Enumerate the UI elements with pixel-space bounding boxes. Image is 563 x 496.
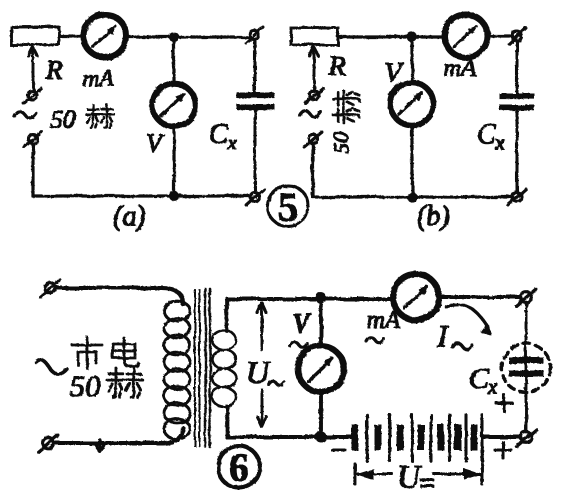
svg-text:mA: mA bbox=[367, 307, 401, 334]
meter V (b) bbox=[391, 83, 434, 126]
node bottom V (a) bbox=[170, 192, 179, 201]
terminal top-left (6) bbox=[40, 280, 60, 297]
terminal bottom-right (6) bbox=[516, 429, 536, 446]
meter mA (a) bbox=[84, 15, 127, 58]
figure number 6 bbox=[218, 445, 260, 490]
wire node to V meter (a) bbox=[173, 37, 175, 84]
terminal top-right (6) bbox=[516, 289, 536, 306]
wire bottom-left (6) bbox=[54, 428, 183, 443]
svg-text:x: x bbox=[494, 130, 505, 154]
wire terminal to cap (b) bbox=[516, 41, 518, 94]
plus sign lower (6) bbox=[495, 442, 511, 458]
transformer primary coil bbox=[164, 301, 190, 439]
wire node to V meter (b) bbox=[411, 37, 413, 82]
capacitor Cx (a) bbox=[237, 93, 274, 109]
dashed circle around Cx (6) bbox=[502, 344, 551, 393]
polarity arrow on bottom wire (6) bbox=[96, 440, 104, 452]
tilde under mA (6) bbox=[366, 337, 384, 343]
svg-text:R: R bbox=[328, 51, 346, 81]
svg-text:(b): (b) bbox=[417, 201, 450, 232]
Cx label (b) bbox=[477, 119, 505, 154]
wire mA right (6) bbox=[438, 295, 520, 298]
svg-text:(a): (a) bbox=[113, 201, 146, 232]
svg-text:x: x bbox=[487, 374, 498, 399]
node top (b) bbox=[407, 32, 416, 41]
svg-text:C: C bbox=[209, 119, 228, 150]
wire V meter to bottom (a) bbox=[173, 126, 175, 196]
wire mA to node (a) bbox=[127, 36, 250, 38]
wire left down (a) bbox=[32, 144, 34, 196]
terminal top-right (b) bbox=[509, 28, 526, 44]
tilde under V (6) bbox=[290, 342, 308, 348]
AC tilde (6) bbox=[36, 360, 67, 374]
svg-text:50: 50 bbox=[329, 132, 353, 154]
electrolytic capacitor Cx (6) bbox=[509, 358, 543, 377]
terminal bottom-right (b) bbox=[508, 189, 526, 205]
meter V (a) bbox=[153, 84, 196, 127]
wire V meter to bottom (6) bbox=[320, 391, 323, 437]
terminal upper-left (b) bbox=[305, 88, 323, 103]
svg-text:U: U bbox=[246, 354, 271, 390]
wire secondary top (6) bbox=[227, 297, 394, 300]
node bottom (b) bbox=[407, 192, 416, 201]
terminal lower-left (b) bbox=[304, 132, 322, 147]
svg-text:C: C bbox=[477, 119, 496, 150]
wire bottom (a) bbox=[33, 195, 250, 197]
Cx label (6) bbox=[469, 362, 498, 399]
plus sign upper (6) bbox=[496, 395, 512, 411]
svg-text:C: C bbox=[469, 362, 490, 395]
tilde AC symbol (a) bbox=[14, 111, 36, 118]
terminal bottom-right (a) bbox=[246, 189, 264, 205]
meter mA (6) bbox=[393, 274, 439, 320]
meter V (6) bbox=[298, 346, 344, 392]
wire to electrolytic cap (6) bbox=[525, 303, 527, 431]
wire R to mA (a) bbox=[59, 35, 84, 37]
wire cap to bottom terminal (b) bbox=[516, 111, 518, 193]
tilde after I (6) bbox=[452, 343, 472, 350]
wire mA to terminal (b) bbox=[488, 35, 513, 37]
wire battery right to terminal (6) bbox=[484, 436, 520, 439]
svg-text:50: 50 bbox=[70, 370, 100, 403]
svg-text:6: 6 bbox=[229, 445, 249, 490]
wire cap to bottom terminal (a) bbox=[254, 110, 256, 192]
terminal top-right (a) bbox=[246, 27, 263, 43]
wire left down (b) bbox=[312, 144, 314, 197]
node bottom (6) bbox=[316, 432, 326, 442]
wire V meter to bottom (b) bbox=[411, 126, 413, 197]
tilde AC symbol (b) bbox=[299, 110, 321, 117]
meter mA (b) bbox=[445, 15, 488, 58]
50 Hz label vertical (b) bbox=[329, 91, 359, 153]
svg-text:R: R bbox=[45, 55, 63, 85]
terminal lower-left (a) bbox=[24, 132, 42, 147]
svg-text:V: V bbox=[146, 129, 165, 158]
wire secondary bottom (6) bbox=[227, 435, 338, 438]
terminal upper-left (a) bbox=[23, 88, 41, 103]
transformer core bbox=[195, 289, 210, 447]
node top V (a) bbox=[170, 33, 179, 42]
node top V (6) bbox=[316, 293, 326, 303]
wire top-left (6) bbox=[56, 288, 183, 304]
capacitor Cx (b) bbox=[500, 94, 534, 110]
svg-text:x: x bbox=[226, 130, 237, 154]
svg-text:I: I bbox=[436, 318, 449, 354]
svg-text:mA: mA bbox=[82, 66, 114, 92]
U= label bbox=[397, 458, 433, 494]
arrow into R (b) bbox=[310, 47, 319, 91]
U2 label bbox=[246, 354, 284, 390]
wire bottom (b) bbox=[313, 196, 513, 198]
U2 voltage arrow bbox=[258, 303, 267, 427]
transformer secondary coil bbox=[212, 300, 236, 437]
resistor R (a) bbox=[11, 27, 59, 45]
wire R to node (b) bbox=[338, 36, 442, 38]
svg-text:U: U bbox=[397, 458, 422, 494]
minus dash (6) bbox=[332, 449, 345, 451]
terminal bottom-left (6) bbox=[38, 435, 58, 452]
wire node to battery (6) bbox=[321, 436, 352, 439]
resistor R (b) bbox=[291, 28, 338, 45]
battery U= cells (6) bbox=[352, 415, 482, 461]
svg-text:5: 5 bbox=[278, 184, 298, 229]
svg-text:V: V bbox=[292, 308, 312, 338]
wire node to V meter (6) bbox=[320, 298, 323, 347]
label: mains 50Hz bbox=[72, 337, 102, 368]
U= dimension arrows (6) bbox=[355, 464, 482, 484]
wire terminal to cap (a) bbox=[254, 40, 256, 92]
arrow into R (a) bbox=[29, 47, 38, 90]
current curved arrow (6) bbox=[446, 305, 488, 328]
Cx label (a) bbox=[209, 119, 237, 154]
svg-text:50: 50 bbox=[50, 105, 76, 134]
svg-text:mA: mA bbox=[444, 56, 476, 82]
